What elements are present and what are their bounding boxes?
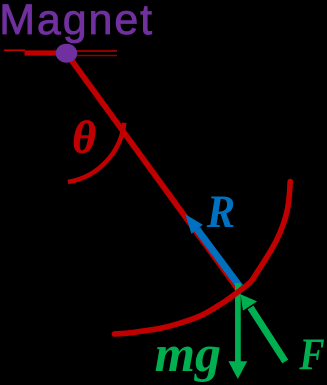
wire thick ceiling segment [25, 50, 59, 55]
circular path arc [114, 182, 290, 334]
wire thin left ceiling segment [4, 49, 25, 51]
svg-text:θ: θ [72, 111, 96, 162]
R arrow shaft (tension) [197, 229, 240, 287]
mg arrow head [228, 361, 247, 379]
svg-text:mg: mg [155, 326, 221, 383]
mg arrow shaft (weight) [235, 283, 241, 362]
F arrow shaft [251, 308, 286, 362]
angle arc theta [68, 123, 124, 182]
wire thin right lower segment [77, 55, 117, 57]
F arrow head [241, 294, 258, 310]
svg-text:F: F [298, 329, 324, 379]
wire thin right upper segment [77, 50, 117, 52]
pivot dot (magnet) [56, 44, 78, 63]
svg-text:R: R [206, 185, 235, 237]
string from pivot to bob [66, 53, 237, 288]
R arrow head [185, 214, 203, 233]
svg-text:Magnet: Magnet [0, 0, 154, 44]
